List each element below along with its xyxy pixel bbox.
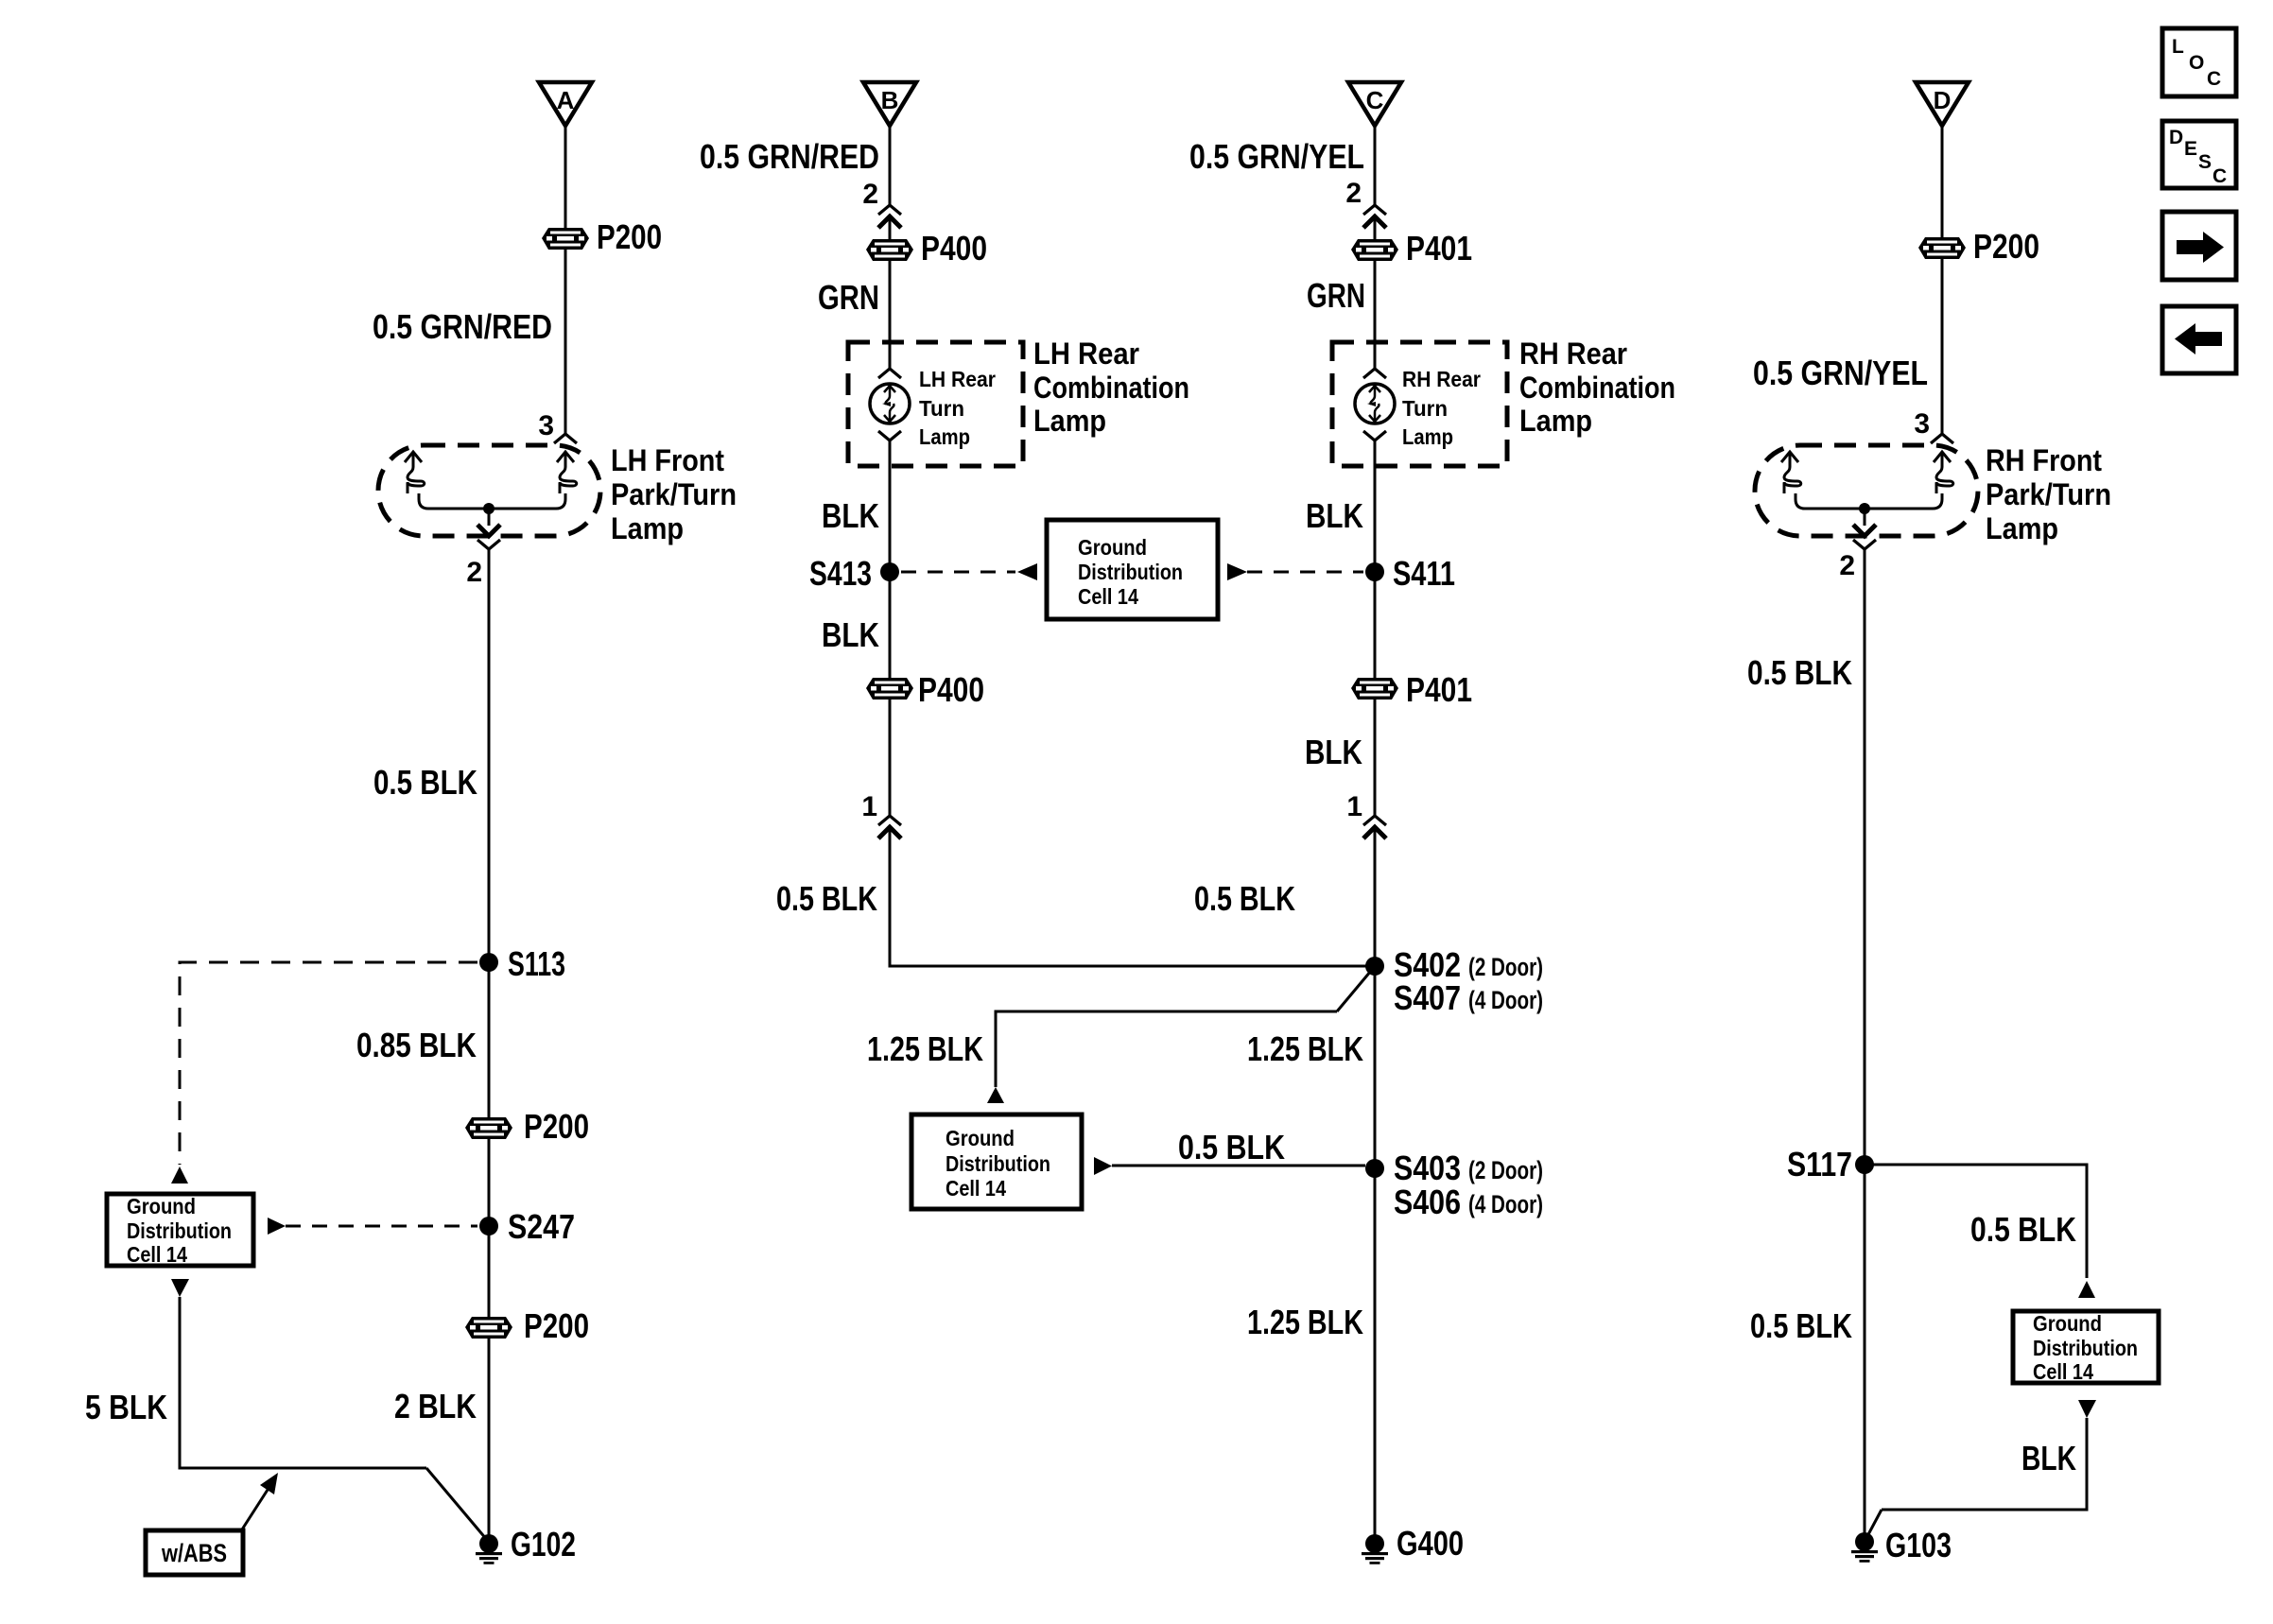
- svg-text:G103: G103: [1885, 1526, 1952, 1564]
- inline connector chevrons (C top): [1363, 205, 1386, 215]
- svg-text:0.5 BLK: 0.5 BLK: [1194, 879, 1295, 918]
- splice S402/S407: [1365, 945, 1543, 1017]
- arrow left from ground cell 1: [1017, 563, 1037, 580]
- connector P400 second (B): [866, 670, 984, 709]
- wire A upper: [564, 126, 567, 228]
- LH Front Park/Turn Lamp label: [611, 443, 737, 545]
- svg-text:RH Front: RH Front: [1986, 443, 2102, 477]
- inline connector chevrons (B mid): [878, 816, 901, 825]
- RH Rear Combination Lamp label: [1519, 337, 1675, 438]
- RH Rear Turn Lamp inner label: [1402, 367, 1481, 449]
- w/ABS box: [146, 1530, 243, 1575]
- wire A S113 to S247: [488, 962, 491, 1226]
- svg-text:(4 Door): (4 Door): [1468, 1190, 1543, 1218]
- svg-text:Lamp: Lamp: [1033, 404, 1106, 438]
- svg-text:RH Rear: RH Rear: [1402, 367, 1481, 391]
- splice S413: [809, 554, 899, 593]
- svg-text:Turn: Turn: [1402, 396, 1448, 421]
- connector triangle B: [863, 82, 916, 126]
- svg-text:P200: P200: [524, 1107, 589, 1146]
- arrow right from ground cell (left): [268, 1218, 286, 1235]
- svg-text:2: 2: [1839, 550, 1855, 581]
- connector P200 (column A): [542, 217, 662, 256]
- svg-text:S247: S247: [508, 1207, 575, 1246]
- wire C from triangle: [1374, 126, 1377, 205]
- svg-text:Cell 14: Cell 14: [127, 1242, 187, 1267]
- svg-text:LH Rear: LH Rear: [919, 367, 996, 391]
- svg-text:1: 1: [861, 791, 877, 822]
- svg-text:S406: S406: [1394, 1183, 1461, 1221]
- connector triangle A: [539, 82, 592, 126]
- svg-text:P200: P200: [524, 1306, 589, 1345]
- LH Rear Turn Lamp inner label: [919, 367, 996, 449]
- RH Front Park/Turn Lamp dashed outline: [1755, 445, 1978, 536]
- RH front lamp pin 2 arrow down: [1864, 509, 1866, 526]
- wire B to rear lamp: [889, 260, 892, 369]
- dashed link ground cell to S247: [286, 1225, 477, 1228]
- DESC legend box: [2162, 121, 2236, 188]
- arrow up into ground cell (left): [171, 1166, 188, 1183]
- svg-text:C: C: [2207, 68, 2221, 90]
- svg-text:Distribution: Distribution: [2033, 1336, 2138, 1360]
- svg-text:Distribution: Distribution: [1078, 560, 1183, 584]
- svg-text:Lamp: Lamp: [1402, 424, 1453, 449]
- wire B S413 to P400: [889, 572, 892, 678]
- dashed link S113 to ground cell: [180, 962, 477, 1165]
- svg-text:Lamp: Lamp: [1986, 511, 2058, 545]
- branch diagonal from S402: [1337, 971, 1371, 1011]
- Ground Distribution Cell 14 box (left): [107, 1194, 253, 1267]
- svg-text:D: D: [2169, 127, 2183, 148]
- svg-text:S413: S413: [809, 554, 872, 593]
- chevron at RH rear lamp entry: [1363, 369, 1386, 378]
- wire B P400 to pin1: [889, 699, 892, 816]
- svg-text:Combination: Combination: [1519, 371, 1675, 405]
- wire label 2 BLK... (already) ground G102: [476, 1525, 576, 1564]
- LH Rear lamp dashed box: [848, 342, 1023, 466]
- svg-text:P400: P400: [921, 229, 987, 268]
- svg-text:Lamp: Lamp: [1519, 404, 1592, 438]
- connector P200 third (column A): [465, 1306, 589, 1345]
- svg-text:BLK: BLK: [822, 496, 879, 535]
- ground G103: [1851, 1526, 1952, 1564]
- svg-text:S407: S407: [1394, 978, 1461, 1017]
- wire C S402 to S403: [1374, 966, 1377, 1168]
- connector P401 second (C): [1351, 670, 1472, 709]
- svg-text:Lamp: Lamp: [919, 424, 970, 449]
- svg-text:0.5 BLK: 0.5 BLK: [1747, 653, 1852, 692]
- wire C to P401: [1374, 216, 1377, 239]
- svg-text:Park/Turn: Park/Turn: [611, 477, 737, 511]
- arrow right from ground cell 2: [1094, 1157, 1112, 1175]
- wire C to rear lamp: [1374, 260, 1377, 369]
- wire A to lamp: [564, 249, 567, 434]
- LH Rear Combination Lamp label: [1033, 337, 1189, 438]
- svg-text:0.5 BLK: 0.5 BLK: [1178, 1128, 1285, 1166]
- RH front lamp internal wire: [1796, 493, 1942, 509]
- svg-text:S117: S117: [1787, 1145, 1852, 1183]
- svg-text:Ground: Ground: [2033, 1311, 2102, 1336]
- wire 5 BLK down-left: [180, 1297, 426, 1468]
- arrow down from ground cell (left): [171, 1279, 189, 1297]
- connector P401 (C): [1351, 229, 1472, 268]
- svg-text:0.5 GRN/YEL: 0.5 GRN/YEL: [1189, 137, 1364, 176]
- Ground Distribution Cell 14 box (center bottom): [911, 1114, 1082, 1209]
- svg-text:Distribution: Distribution: [946, 1151, 1050, 1176]
- connector P400 (B): [866, 229, 987, 268]
- svg-text:GRN: GRN: [818, 278, 879, 317]
- wire B lamp to S413: [889, 441, 892, 572]
- splice S411: [1365, 554, 1455, 593]
- wire C lamp to S411: [1374, 441, 1377, 572]
- svg-text:0.5 GRN/YEL: 0.5 GRN/YEL: [1753, 354, 1928, 392]
- svg-text:1.25 BLK: 1.25 BLK: [1247, 1303, 1363, 1341]
- wire ground cell 2 to S403: [1112, 1165, 1365, 1167]
- svg-text:O: O: [2189, 52, 2204, 74]
- svg-text:Cell 14: Cell 14: [1078, 584, 1138, 609]
- svg-text:GRN: GRN: [1307, 276, 1365, 315]
- svg-text:L: L: [2172, 36, 2184, 58]
- arrow up into ground cell 3: [2078, 1281, 2095, 1298]
- RH Rear lamp dashed box: [1332, 342, 1507, 466]
- svg-text:3: 3: [1914, 408, 1930, 440]
- arrow up into ground cell 2: [987, 1087, 1004, 1103]
- ground G400: [1362, 1524, 1464, 1564]
- LH front lamp internal wire: [419, 493, 565, 509]
- svg-text:2 BLK: 2 BLK: [394, 1387, 477, 1425]
- svg-text:0.5 BLK: 0.5 BLK: [1750, 1306, 1852, 1345]
- arrow down from ground cell 3: [2078, 1400, 2096, 1418]
- LOC legend box: [2162, 28, 2236, 96]
- RH rear turn lamp bulb: [1355, 384, 1395, 423]
- svg-text:BLK: BLK: [822, 615, 879, 654]
- svg-text:0.5 GRN/RED: 0.5 GRN/RED: [700, 137, 879, 176]
- svg-text:Cell 14: Cell 14: [2033, 1359, 2093, 1384]
- pin chevron at lamp D entry: [1931, 434, 1953, 443]
- svg-text:3: 3: [538, 410, 554, 441]
- chevron below bulb (B): [878, 431, 901, 441]
- svg-text:Ground: Ground: [1078, 535, 1147, 560]
- svg-text:P200: P200: [1973, 227, 2039, 266]
- svg-text:Lamp: Lamp: [611, 511, 684, 545]
- Ground Distribution Cell 14 box (center top): [1047, 520, 1218, 619]
- branch horizontal to ground cell 2: [996, 1011, 1337, 1087]
- svg-text:P200: P200: [597, 217, 662, 256]
- svg-text:2: 2: [466, 557, 482, 588]
- svg-text:5 BLK: 5 BLK: [85, 1388, 167, 1426]
- LH front lamp terminal right (pin 3): [557, 452, 577, 493]
- wire S117 branch right: [1865, 1165, 2087, 1278]
- wire D to lamp: [1941, 258, 1944, 434]
- svg-text:Combination: Combination: [1033, 371, 1189, 405]
- svg-text:0.5 BLK: 0.5 BLK: [373, 763, 477, 802]
- chevron below RH front lamp: [1853, 540, 1876, 549]
- svg-text:BLK: BLK: [1305, 733, 1362, 771]
- svg-text:Distribution: Distribution: [127, 1218, 232, 1243]
- svg-text:P401: P401: [1406, 229, 1472, 268]
- svg-text:Ground: Ground: [127, 1194, 196, 1218]
- svg-text:G400: G400: [1397, 1524, 1464, 1563]
- w/ABS arrow: [242, 1490, 268, 1529]
- splice S117: [1787, 1145, 1874, 1183]
- chevron below LH front lamp: [477, 540, 500, 549]
- svg-text:S411: S411: [1393, 554, 1455, 593]
- connector P200 second (column A): [465, 1107, 589, 1146]
- svg-text:G102: G102: [511, 1525, 576, 1564]
- wire B to P400: [889, 216, 892, 239]
- wire D lower: [1864, 549, 1866, 1542]
- svg-text:0.5 BLK: 0.5 BLK: [1970, 1210, 2076, 1249]
- wire BLK from ground cell 3: [1882, 1418, 2087, 1510]
- svg-text:B: B: [881, 86, 899, 114]
- svg-text:S: S: [2198, 151, 2212, 173]
- LH Front Park/Turn Lamp dashed outline: [378, 445, 600, 536]
- svg-text:A: A: [557, 86, 575, 114]
- splice S403/S406: [1365, 1149, 1543, 1221]
- svg-text:1.25 BLK: 1.25 BLK: [867, 1029, 983, 1068]
- splice S247: [479, 1207, 575, 1246]
- RH front lamp terminal left: [1781, 452, 1801, 493]
- wire C S411 to P401: [1374, 572, 1377, 678]
- svg-text:LH Rear: LH Rear: [1033, 337, 1139, 371]
- svg-text:0.5 BLK: 0.5 BLK: [776, 879, 877, 918]
- wire C to S402: [1374, 827, 1377, 966]
- wire C S403 to G400: [1374, 1168, 1377, 1544]
- svg-text:D: D: [1934, 86, 1952, 114]
- chevron below bulb (C): [1363, 431, 1386, 441]
- dashed link ground cell 1 to S411: [1247, 571, 1363, 574]
- wire C P401 to pin1: [1374, 699, 1377, 816]
- svg-text:(2 Door): (2 Door): [1468, 953, 1543, 981]
- svg-text:P401: P401: [1406, 670, 1472, 709]
- svg-text:S113: S113: [508, 944, 565, 983]
- left-arrow legend box: [2162, 306, 2236, 373]
- svg-text:P400: P400: [918, 670, 984, 709]
- RH Front Park/Turn Lamp label: [1986, 443, 2111, 545]
- svg-text:BLK: BLK: [2021, 1439, 2076, 1477]
- connector triangle D: [1916, 82, 1969, 126]
- LH rear turn lamp bulb: [870, 384, 910, 423]
- inline connector chevrons (C mid): [1363, 816, 1386, 825]
- svg-text:w/ABS: w/ABS: [161, 1539, 227, 1567]
- right-arrow legend box: [2162, 212, 2236, 280]
- svg-text:C: C: [2212, 165, 2227, 187]
- wire B down and right to S402: [890, 827, 1375, 966]
- svg-text:Ground: Ground: [946, 1126, 1015, 1150]
- RH front lamp terminal right (pin 3): [1934, 452, 1953, 493]
- arrow right from ground cell 1: [1227, 563, 1247, 580]
- connector P200 (column D): [1918, 227, 2039, 266]
- svg-text:BLK: BLK: [1306, 496, 1363, 535]
- wire diagonal to G102: [426, 1468, 487, 1540]
- svg-text:1.25 BLK: 1.25 BLK: [1247, 1029, 1363, 1068]
- svg-text:RH Rear: RH Rear: [1519, 337, 1627, 371]
- wire A S247 to G102: [488, 1226, 491, 1544]
- svg-text:Park/Turn: Park/Turn: [1986, 477, 2111, 511]
- wire B from triangle: [889, 126, 892, 205]
- svg-text:C: C: [1366, 86, 1384, 114]
- Ground Distribution Cell 14 box (right): [2013, 1311, 2159, 1384]
- pin chevron at lamp A entry: [554, 434, 577, 443]
- svg-text:0.5 GRN/RED: 0.5 GRN/RED: [373, 307, 552, 346]
- dashed link S413 to ground cell 1: [901, 571, 1015, 574]
- svg-text:E: E: [2184, 138, 2197, 160]
- svg-text:2: 2: [1345, 178, 1362, 209]
- wire A lower: [488, 549, 491, 962]
- svg-text:Cell 14: Cell 14: [946, 1176, 1006, 1201]
- svg-text:(4 Door): (4 Door): [1468, 986, 1543, 1014]
- LH front lamp pin 2 arrow down: [488, 509, 491, 526]
- svg-text:2: 2: [862, 179, 878, 210]
- splice S113: [479, 944, 565, 983]
- svg-text:(2 Door): (2 Door): [1468, 1156, 1543, 1184]
- connector triangle C: [1348, 82, 1401, 126]
- LH front lamp terminal left: [405, 452, 425, 493]
- svg-text:1: 1: [1346, 791, 1362, 822]
- svg-text:0.85 BLK: 0.85 BLK: [356, 1026, 477, 1064]
- LH front lamp junction node: [483, 503, 495, 514]
- wire D upper: [1941, 126, 1944, 237]
- chevron at LH rear lamp entry: [878, 369, 901, 378]
- RH front lamp junction node: [1859, 503, 1870, 514]
- svg-text:Turn: Turn: [919, 396, 964, 421]
- svg-text:LH Front: LH Front: [611, 443, 724, 477]
- svg-text:S403: S403: [1394, 1149, 1461, 1187]
- wire diagonal to G103: [1866, 1510, 1882, 1538]
- inline connector chevrons (B top): [878, 205, 901, 215]
